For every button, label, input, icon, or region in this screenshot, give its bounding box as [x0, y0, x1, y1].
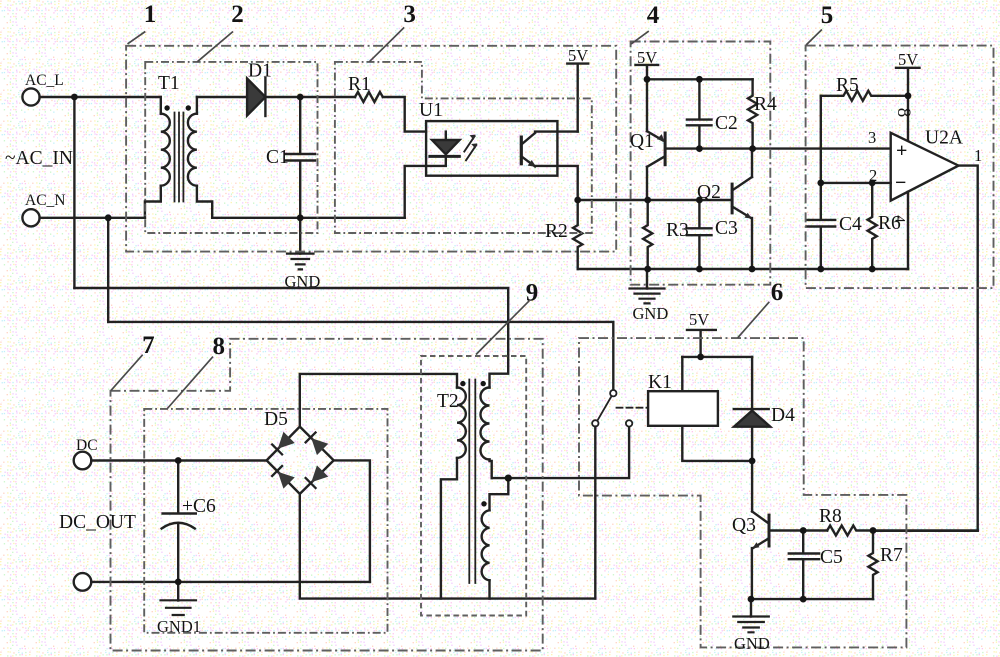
U1 LED [432, 140, 460, 154]
U1 light arrows [464, 136, 476, 160]
polarity dot T1 left [164, 105, 169, 110]
transformer T1 core [175, 113, 184, 202]
transformer T2 secondary upper winding [481, 388, 490, 460]
node C5 top [800, 527, 807, 534]
wire D4 node to Q3 collector [751, 461, 753, 512]
block4 top rail [647, 78, 753, 80]
transistor Q2 (NPN) [731, 184, 734, 213]
wire R2 bottom rail to block4/5 [578, 268, 908, 270]
diode D4 (flyback, pointing up) [734, 408, 769, 410]
Q1 base wire to op-amp [665, 147, 891, 149]
svg-text:Q2: Q2 [697, 182, 721, 203]
5V supply (block4) [636, 65, 659, 79]
polarity dot T2 right [481, 381, 486, 386]
transformer T2 primary winding [457, 388, 466, 458]
resistor R8 [827, 526, 978, 536]
ground GND1 [161, 600, 197, 615]
svg-text:T1: T1 [158, 73, 180, 94]
capacitor C3 [687, 200, 712, 269]
svg-text:C5: C5 [820, 547, 843, 568]
box 1 outline [126, 46, 616, 252]
capacitor C4 [806, 183, 835, 269]
optocoupler U1 body [426, 121, 557, 176]
polarity dot T2 lower [481, 501, 486, 506]
T2 lower winding feed [490, 478, 509, 510]
T2 lower winding bottom lead [488, 580, 490, 598]
wire C6 bottom to GND1 [177, 582, 179, 601]
node C4 bottom [817, 266, 824, 273]
box 8 outline [144, 409, 387, 633]
Q3 base wire / R8 left [769, 529, 827, 531]
svg-text:9: 9 [526, 280, 539, 307]
capacitor C1 [286, 97, 316, 218]
leader line 8 [167, 357, 213, 409]
svg-text:~AC_IN: ~AC_IN [5, 148, 73, 169]
capacitor C6 (polarized) [163, 461, 196, 582]
capacitor C2 [687, 79, 712, 148]
svg-text:1: 1 [144, 1, 157, 28]
svg-text:8: 8 [893, 108, 914, 118]
svg-text:2: 2 [231, 1, 244, 28]
U1 LED anode lead [445, 132, 447, 140]
node U1 emitter/R2 [574, 197, 581, 204]
node AC_L junction [71, 94, 78, 101]
svg-text:5: 5 [821, 2, 834, 29]
node wire bottom AC_N segment to C1 [212, 217, 405, 219]
svg-text:C1: C1 [266, 147, 289, 168]
node R5/5V [905, 92, 912, 99]
op-amp V- stem [907, 192, 909, 269]
transistor Q1 emitter lead [646, 79, 648, 131]
bridge D5 diamond [267, 427, 334, 494]
svg-text:AC_N: AC_N [25, 192, 65, 209]
transformer T2 secondary lower winding [482, 510, 490, 580]
svg-text:C2: C2 [715, 113, 738, 134]
box 6 outline [579, 338, 906, 647]
Q1 collector lead [646, 167, 648, 200]
wire U1 pin2 to bottom rail [405, 166, 426, 218]
wire R5 left down to minus input [820, 96, 822, 183]
wire DC plus to bridge [91, 459, 266, 461]
switch contact left [592, 420, 598, 426]
transistor Q1 (PNP) [664, 133, 667, 165]
box 4 outline [631, 42, 771, 285]
node minus wire left [817, 180, 824, 187]
node Q3 emitter rail [748, 596, 755, 603]
terminal DC minus [74, 573, 92, 591]
Q2 emitter lead [751, 218, 753, 269]
leader line 7 [111, 355, 143, 391]
node R6 bottom [869, 266, 876, 273]
svg-text:3: 3 [868, 128, 876, 147]
resistor R3 [643, 200, 652, 269]
op-amp U2A triangle [891, 133, 959, 201]
leader line 3 [369, 27, 404, 61]
box 7 outline [111, 339, 543, 651]
svg-text:D1: D1 [248, 61, 272, 82]
svg-text:1: 1 [974, 146, 982, 165]
block6 top rail [682, 356, 752, 358]
node block4 5V rail left [644, 76, 651, 83]
capacitor C5 [789, 531, 819, 600]
resistor R6 [868, 183, 877, 269]
resistor R5 [821, 91, 908, 101]
svg-text:3: 3 [403, 1, 416, 28]
svg-text:T2: T2 [437, 391, 459, 412]
svg-text:DC: DC [76, 437, 98, 454]
5V supply (block3) [567, 64, 588, 132]
linkage dashed to K1 [617, 407, 649, 409]
transformer T1 primary winding [161, 114, 170, 186]
switch fixed contact top [610, 390, 616, 396]
wire D1 to C1 node and R1 [265, 96, 355, 98]
svg-text:R2: R2 [545, 221, 568, 242]
svg-text:+: + [896, 140, 907, 162]
transformer T1 right feed [196, 97, 198, 114]
diode D4 leads [751, 357, 753, 461]
op-amp minus input wire [821, 182, 891, 184]
transformer T1 primary bottom step [145, 186, 161, 218]
transformer T2 core [469, 380, 475, 584]
leader line 6 [738, 302, 770, 338]
svg-text:U2A: U2A [925, 128, 963, 149]
svg-text:GND: GND [285, 272, 321, 291]
leader line 2 [197, 32, 233, 62]
box 5 outline [806, 46, 994, 289]
svg-text:R1: R1 [348, 74, 371, 95]
svg-text:DC_OUT: DC_OUT [59, 512, 136, 533]
svg-text:R8: R8 [819, 506, 842, 527]
leader line 1 [128, 32, 146, 44]
polarity dot T1 right [186, 105, 191, 110]
T2 centre tap wire to switch [492, 426, 629, 478]
node K1/D4/Q3 [749, 458, 756, 465]
bridge diode lower-right [305, 465, 328, 488]
box 3 outline [335, 62, 592, 233]
svg-text:R3: R3 [666, 220, 689, 241]
svg-text:R4: R4 [754, 94, 777, 115]
U1 collector pin to 5V [535, 130, 578, 132]
wire bridge bottom to rail [300, 494, 596, 599]
svg-text:GND1: GND1 [157, 617, 201, 636]
5V supply (block5) [896, 68, 920, 96]
ground GND (block6) [750, 599, 752, 616]
svg-text:+C6: +C6 [182, 496, 216, 517]
node rail Q2 emitter [749, 266, 756, 273]
5V supply (block6) [687, 330, 716, 357]
svg-text:GND: GND [734, 634, 770, 653]
T2 centre tap step [490, 460, 492, 479]
node C1 bottom [297, 214, 304, 221]
svg-text:D5: D5 [264, 409, 288, 430]
transistor Q3 (NPN) [768, 515, 771, 546]
wire C1 bottom to GND [299, 218, 301, 254]
svg-text:C4: C4 [839, 214, 862, 235]
svg-text:C3: C3 [715, 218, 738, 239]
wire AC_N down vertical [107, 218, 109, 322]
ground GND (block2) [287, 254, 314, 270]
wire bridge right to DC minus [334, 460, 370, 582]
svg-text:5V: 5V [568, 46, 588, 65]
svg-text:5V: 5V [898, 50, 918, 69]
wire node to R2 and block4 [578, 199, 732, 201]
svg-text:6: 6 [771, 279, 784, 306]
wire DC minus [91, 581, 370, 583]
bridge diode upper-right [305, 432, 328, 455]
wire bridge top to T2 [300, 374, 457, 427]
resistor R2 [573, 200, 582, 269]
op-amp U2A power stem [907, 96, 909, 141]
node D1/C1 [297, 94, 304, 101]
box 9 outline [421, 356, 526, 616]
leader line 9 [476, 301, 529, 355]
svg-text:7: 7 [142, 332, 155, 359]
node C2 bottom / base wire [696, 145, 703, 152]
node rail R3 bottom [644, 266, 651, 273]
wire AC_L down-left vertical [73, 97, 75, 288]
svg-text:R7: R7 [880, 545, 903, 566]
svg-text:GND: GND [633, 304, 669, 323]
svg-text:5V: 5V [689, 310, 709, 329]
node R8/R7 [870, 527, 877, 534]
Q2 collector lead [751, 149, 753, 177]
node Q1 collector/R3 [644, 197, 651, 204]
svg-text:−: − [895, 172, 906, 194]
diode D1 [247, 79, 265, 116]
node AC_N junction [105, 214, 112, 221]
svg-text:5V: 5V [637, 48, 657, 67]
leader line 5 [806, 30, 822, 45]
bridge diode upper-left [271, 432, 294, 455]
relay K1 leads [682, 357, 752, 461]
switch lever [597, 396, 611, 421]
resistor R1 [355, 92, 383, 102]
node C2 top [696, 76, 703, 83]
bridge diode lower-left [271, 465, 294, 488]
leader line 4 [631, 31, 649, 44]
svg-text:AC_L: AC_L [25, 72, 64, 89]
wire T1 to D1 [197, 96, 247, 98]
node DC plus / C6 [175, 457, 182, 464]
wire B horizontal to switch [108, 322, 613, 390]
Q3 emitter lead [751, 548, 753, 599]
transformer T2 primary bottom step [441, 458, 457, 599]
wire switch left contact down to rail [594, 427, 596, 599]
switch contact right [626, 420, 632, 426]
node C3 top [696, 197, 703, 204]
node block6 5V [697, 354, 704, 361]
svg-text:R6: R6 [878, 213, 901, 234]
ground GND (block4) [646, 269, 648, 289]
svg-text:D4: D4 [771, 405, 795, 426]
terminal AC_N [22, 209, 39, 226]
wire AC_L to T1 [40, 96, 161, 98]
wire AC_N to T1 [40, 217, 145, 219]
node R4 bottom / Q2 collector [749, 145, 756, 152]
svg-text:Q3: Q3 [732, 515, 756, 536]
node DC minus / C6 [175, 579, 182, 586]
node R6 top [869, 180, 876, 187]
svg-text:U1: U1 [419, 100, 443, 121]
U1 phototransistor [520, 137, 523, 164]
wire R1 to U1 pin1 [383, 97, 426, 132]
U1 emitter pin [535, 166, 578, 200]
block6 bottom rail [751, 598, 873, 600]
svg-text:2: 2 [869, 166, 877, 185]
svg-text:8: 8 [212, 333, 225, 360]
node rail C3 bottom [696, 266, 703, 273]
svg-text:4: 4 [647, 2, 660, 29]
transformer T1 left feed [160, 97, 162, 114]
relay K1 coil box [648, 391, 718, 426]
terminal DC plus [74, 452, 92, 470]
svg-text:K1: K1 [648, 372, 672, 393]
transformer T1 secondary winding [188, 114, 197, 186]
op-amp output wire [873, 166, 978, 531]
transformer T1 secondary bottom step [197, 186, 212, 218]
terminal AC_L [22, 88, 39, 105]
node C5 bottom rail [800, 596, 807, 603]
resistor R4 [748, 79, 757, 148]
box 2 outline [145, 62, 317, 233]
svg-text:R5: R5 [836, 75, 859, 96]
U1 LED cathode lead [426, 156, 446, 166]
svg-text:Q1: Q1 [630, 131, 654, 152]
wire A horizontal to T2 [74, 288, 508, 388]
node T2 centre tap [505, 475, 512, 482]
polarity dot T2 left [460, 381, 465, 386]
resistor R7 [868, 531, 877, 600]
